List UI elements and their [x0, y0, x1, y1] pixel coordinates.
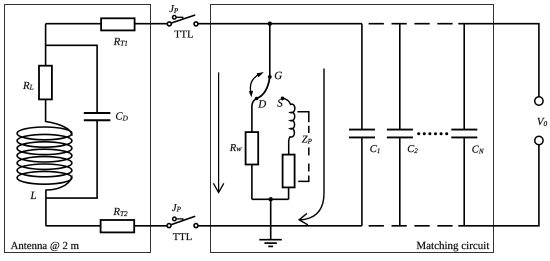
ground symbol line 3 [268, 245, 273, 247]
relay wiper arc G to D [257, 77, 270, 99]
switch JP2 right terminal [194, 224, 198, 228]
svg-text:Matching circuit: Matching circuit [416, 240, 489, 252]
switch JP1 left terminal [167, 22, 171, 26]
inductor L turn 3 [17, 142, 72, 155]
resistor RL [39, 66, 52, 100]
wire RT1 to switch JP1 [135, 23, 168, 25]
svg-text:TTL: TTL [174, 29, 193, 40]
rotation arrow head bottom [249, 91, 253, 98]
output terminal bottom [535, 136, 543, 144]
resistor RW [246, 132, 259, 164]
node G [268, 75, 272, 79]
ground stem [270, 199, 272, 239]
svg-text:S: S [277, 97, 283, 109]
connector wire RW to ZP bottoms [252, 198, 289, 200]
bottom bus dashed segment [369, 225, 453, 227]
wire coil to bottom [45, 190, 47, 226]
wire ZP resistor bottom [288, 187, 290, 199]
inductor L turn 6 [17, 164, 72, 177]
inductor L coil entry [46, 122, 72, 136]
capacitor C2 branch bottom [399, 138, 401, 226]
antenna branch vertical RL [45, 24, 47, 66]
antenna box [5, 5, 151, 253]
wire CD tap [46, 45, 98, 112]
inductor L turn 4 [17, 149, 72, 162]
wire D to RW [252, 99, 257, 133]
junction node on connector [269, 197, 273, 201]
rotation arrow head top [257, 72, 264, 77]
wire RW bottom [251, 165, 253, 200]
switch JP2 control terminal [173, 217, 177, 221]
inductor L turn 7 [17, 171, 72, 184]
top bus solid left segment [198, 23, 362, 25]
wire S to ZP coil and inductor loops [283, 98, 295, 154]
big curved arrow head [299, 213, 308, 225]
capacitor C1 top plate [349, 129, 375, 131]
capacitor C1 branch bottom [361, 138, 363, 226]
capacitor C1 bottom plate [349, 136, 375, 138]
svg-text:G: G [274, 70, 282, 82]
inductor L turn 1 [17, 127, 72, 140]
output terminal top [535, 97, 543, 105]
dashed box around ZP right dash 4 [308, 164, 310, 172]
top bus dashed segment [369, 23, 453, 25]
svg-text:TTL: TTL [173, 232, 192, 243]
switch JP2 arm [171, 216, 195, 225]
wire top bus to G [269, 24, 271, 77]
wire RL to coil [45, 99, 47, 122]
switch JP1 control terminal [173, 15, 177, 19]
svg-text:L: L [29, 190, 36, 202]
svg-text:D: D [257, 99, 266, 111]
capacitor CN branch top [463, 24, 465, 129]
capacitor CD top plate [84, 112, 111, 114]
big curved arrow shaft [299, 69, 324, 220]
capacitor CN bottom plate [451, 136, 477, 138]
matching circuit box [211, 5, 494, 253]
capacitor C1 branch top [361, 24, 363, 129]
resistor in ZP [283, 155, 295, 188]
switch JP1 control tap wire [176, 17, 183, 19]
switch JP2 control tap wire [176, 219, 183, 221]
wire bottom output to bottom bus [458, 145, 539, 226]
ground symbol line 2 [264, 242, 276, 244]
capacitor C2 branch top [399, 24, 401, 129]
wire RT2 to switch JP2 [134, 225, 167, 227]
bottom wire node to RT2 [46, 225, 101, 227]
switch JP2 left terminal [167, 224, 171, 228]
dashed box around ZP top corner [297, 112, 308, 122]
resistor RT2 [101, 220, 135, 232]
node D [255, 97, 259, 101]
wire CD bottom to L branch [46, 121, 97, 198]
inductor L coil exit [46, 176, 72, 191]
switch JP1 arm [171, 15, 195, 23]
svg-text:Antenna @ 2 m: Antenna @ 2 m [11, 240, 80, 252]
resistor RT1 [101, 18, 135, 30]
dashed box around ZP right dash 2 [308, 126, 310, 133]
capacitor CN top plate [451, 129, 477, 131]
current direction arrow left [218, 72, 220, 192]
rotation double arrow arc [250, 74, 260, 93]
inductor L turn 2 [17, 134, 72, 147]
wire top-left node to RT1 [46, 23, 102, 25]
ground symbol line 1 [259, 239, 282, 241]
capacitor CD bottom plate [84, 119, 111, 121]
top bus solid right segment with corner down to output [458, 24, 539, 97]
bottom bus solid left segment [198, 225, 362, 227]
inductor L turn 5 [17, 157, 72, 170]
junction node on top bus [268, 22, 272, 26]
dashed box around ZP right dash 3 [308, 147, 310, 155]
node S [281, 97, 285, 101]
capacitor C2 bottom plate [387, 136, 413, 138]
capacitor CN branch bottom [463, 138, 465, 226]
ellipsis dots between C2 and CN [417, 132, 448, 135]
dashed box around ZP bottom corner [298, 176, 309, 182]
svg-text:Rw: Rw [229, 143, 242, 154]
capacitor C2 top plate [387, 129, 413, 131]
switch JP1 right terminal [194, 22, 198, 26]
